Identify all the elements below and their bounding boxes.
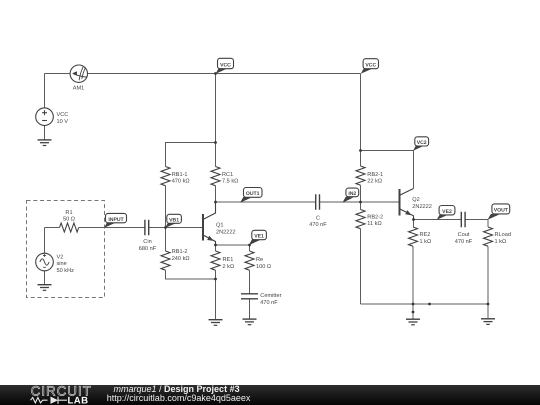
- wire C to IN2 junction: [320, 201, 361, 203]
- svg-text:VB1: VB1: [169, 217, 179, 223]
- source VCC 10 V: [36, 108, 69, 126]
- junction above RE2 ground: [412, 311, 415, 314]
- wire RE2 to ground: [412, 246, 414, 319]
- wire V2 to R1: [45, 227, 60, 229]
- ground below VCC source: [38, 140, 52, 146]
- wire VC2 branch: [361, 150, 414, 152]
- svg-text:100 Ω: 100 Ω: [256, 264, 271, 270]
- junction at VE1 node left: [214, 244, 217, 247]
- junction at VE2 node: [412, 218, 415, 221]
- svg-text:Q2: Q2: [412, 197, 419, 203]
- svg-text:RB1-2: RB1-2: [172, 249, 188, 255]
- wire Q2 base: [361, 201, 400, 203]
- node flag INPUT: [104, 213, 127, 228]
- wire Cemitter to ground: [249, 299, 251, 319]
- source V2 sine: [36, 253, 74, 274]
- wire vcc source top lead: [44, 74, 46, 109]
- wire Re top stub: [249, 245, 251, 251]
- wire RB2-1 to RB2-2: [360, 185, 362, 209]
- junction at IN2 node: [359, 201, 362, 204]
- junction at OUT1 node: [214, 201, 217, 204]
- wire bottom ground rail: [361, 303, 489, 305]
- svg-text:Cout: Cout: [458, 232, 470, 238]
- resistor RE1 2 kΩ: [211, 251, 234, 270]
- resistor RB2-2 11 kΩ: [356, 210, 383, 229]
- svg-text:LAB: LAB: [68, 396, 89, 405]
- junction on rail mid: [428, 303, 431, 306]
- input dashed box: [27, 201, 105, 298]
- svg-text:50 kHz: 50 kHz: [57, 267, 75, 274]
- ground below V2: [38, 285, 52, 291]
- svg-text:11 kΩ: 11 kΩ: [367, 220, 381, 227]
- svg-text:7.5 kΩ: 7.5 kΩ: [222, 178, 238, 185]
- capacitor Cemitter 470 nF: [241, 292, 282, 306]
- wire Cout to VOUT: [465, 219, 488, 221]
- capacitor Cin 680 nF: [139, 220, 157, 252]
- wire RE2 top stub: [413, 220, 415, 228]
- node flag VOUT: [488, 204, 510, 220]
- node flag OUT1: [240, 188, 262, 203]
- wire RLoad to ground: [487, 246, 489, 319]
- svg-text:2N2222: 2N2222: [412, 204, 432, 210]
- resistor Re 100 Ω: [245, 251, 271, 270]
- wire RB2-2 to bottom rail: [360, 229, 362, 304]
- resistor RLoad 1 kΩ: [484, 227, 511, 246]
- CircuitLab logo squiggle and diode: [31, 397, 68, 404]
- wire RLoad top stub: [487, 220, 489, 228]
- wire VB1 to RB1-2: [165, 228, 167, 252]
- svg-text:RB1-1: RB1-1: [172, 172, 188, 178]
- svg-text:OUT1: OUT1: [246, 191, 260, 197]
- svg-text:RLoad: RLoad: [495, 231, 511, 238]
- footer bar: [0, 385, 540, 405]
- junction at VCC tap left: [214, 72, 217, 75]
- resistor RB2-1 22 kΩ: [356, 166, 383, 185]
- node flag VE1: [249, 230, 266, 245]
- svg-text:RC1: RC1: [222, 172, 233, 178]
- wire vcc source bottom lead: [44, 126, 46, 140]
- node flag VCC right: [361, 59, 379, 74]
- node flag IN2: [342, 188, 358, 203]
- junction at RB1-1 branch: [214, 141, 217, 144]
- svg-text:VOUT: VOUT: [494, 208, 509, 214]
- svg-text:470 nF: 470 nF: [455, 239, 473, 245]
- resistor RE2 1 kΩ: [409, 227, 432, 246]
- svg-text:INPUT: INPUT: [108, 217, 124, 223]
- svg-text:240 kΩ: 240 kΩ: [172, 255, 190, 262]
- svg-text:VCC: VCC: [220, 62, 231, 68]
- wire V2 top lead: [44, 228, 46, 254]
- wire RB1-1 top branch: [166, 143, 216, 167]
- wire RC1 bottom: [215, 186, 217, 202]
- wire Re to Cemitter: [249, 270, 251, 294]
- wire V2 bottom lead: [44, 271, 46, 285]
- svg-text:Q1: Q1: [216, 223, 223, 229]
- svg-text:RE1: RE1: [223, 257, 234, 263]
- wire left vcc vertical: [215, 74, 217, 167]
- wire right vcc vertical: [360, 74, 362, 167]
- resistor RC1 7.5 kΩ: [211, 167, 238, 186]
- transistor Q1 2N2222: [203, 202, 236, 245]
- wire top rail left: [45, 73, 70, 75]
- svg-text:Cin: Cin: [143, 238, 151, 245]
- wire top rail main: [87, 73, 360, 75]
- node flag VB1: [165, 214, 181, 228]
- svg-text:50 Ω: 50 Ω: [63, 217, 75, 223]
- svg-text:VCC: VCC: [57, 112, 69, 118]
- wire Q1 base: [166, 227, 204, 229]
- node flag VC2: [413, 137, 429, 151]
- ground below RE2: [406, 319, 420, 325]
- svg-text:VCC: VCC: [365, 63, 376, 69]
- svg-text:1 kΩ: 1 kΩ: [495, 238, 507, 245]
- junction at VC2 branch: [359, 149, 362, 152]
- svg-text:22 kΩ: 22 kΩ: [367, 178, 382, 185]
- svg-text:2 kΩ: 2 kΩ: [223, 263, 235, 270]
- junction at VB1 node: [164, 226, 167, 229]
- svg-text:470 nF: 470 nF: [309, 222, 327, 228]
- svg-text:VC2: VC2: [417, 140, 427, 146]
- node flag VE2: [437, 206, 455, 220]
- svg-text:Re: Re: [256, 257, 263, 263]
- wire Q2 collector vertical: [413, 151, 415, 189]
- resistor RB1-1 470 kΩ: [161, 167, 190, 186]
- transistor Q2 2N2222: [400, 189, 432, 220]
- svg-text:V2: V2: [57, 254, 64, 260]
- wire Q1 emitter node: [216, 244, 250, 246]
- capacitor Cout 470 nF: [455, 212, 473, 245]
- wire Cin to VB1: [149, 227, 166, 229]
- CircuitLab logo word CIRCUIT: [31, 384, 92, 399]
- svg-text:C: C: [316, 215, 320, 221]
- junction at VE1 node right: [248, 244, 251, 247]
- ground below RE1: [209, 320, 223, 326]
- junction at RB1-2 ground branch: [214, 278, 217, 281]
- wire RB1-1 bottom to base: [165, 186, 167, 228]
- ground below RLoad: [481, 319, 495, 325]
- node flag VCC left: [216, 58, 234, 74]
- svg-text:470 kΩ: 470 kΩ: [172, 178, 190, 185]
- svg-text:VE1: VE1: [254, 234, 264, 240]
- wire OUT1 to C: [216, 201, 316, 203]
- svg-text:sine: sine: [57, 260, 67, 267]
- wire Q2 emitter to Cout: [414, 219, 462, 221]
- resistor RB1-2 240 kΩ: [161, 249, 190, 270]
- ground below Cemitter: [243, 319, 257, 325]
- capacitor C 470 nF: [309, 194, 327, 228]
- svg-text:RB2-1: RB2-1: [367, 172, 383, 178]
- svg-text:R1: R1: [65, 210, 72, 216]
- resistor R1 50 Ω: [60, 210, 79, 232]
- ammeter AM1: [70, 65, 87, 91]
- svg-text:10 V: 10 V: [57, 119, 69, 125]
- svg-text:1 kΩ: 1 kΩ: [420, 238, 432, 245]
- svg-text:IN2: IN2: [348, 191, 356, 197]
- wire RE1 top stub: [215, 245, 217, 251]
- svg-text:470 nF: 470 nF: [260, 300, 278, 306]
- wire RE1 to ground: [215, 270, 217, 320]
- wire RB1-2 bottom branch: [166, 270, 216, 279]
- svg-text:VE2: VE2: [442, 209, 452, 215]
- wire R1 to Cin: [79, 227, 145, 229]
- svg-text:Cemitter: Cemitter: [260, 292, 281, 299]
- svg-text:2N2222: 2N2222: [216, 229, 236, 235]
- svg-text:RB2-2: RB2-2: [367, 214, 383, 220]
- junction at RLoad rail corner: [487, 303, 490, 306]
- junction at RE2 rail crossing: [412, 303, 415, 306]
- svg-text:RE2: RE2: [420, 232, 431, 238]
- svg-text:AM1: AM1: [73, 85, 85, 91]
- svg-text:680 nF: 680 nF: [139, 246, 157, 252]
